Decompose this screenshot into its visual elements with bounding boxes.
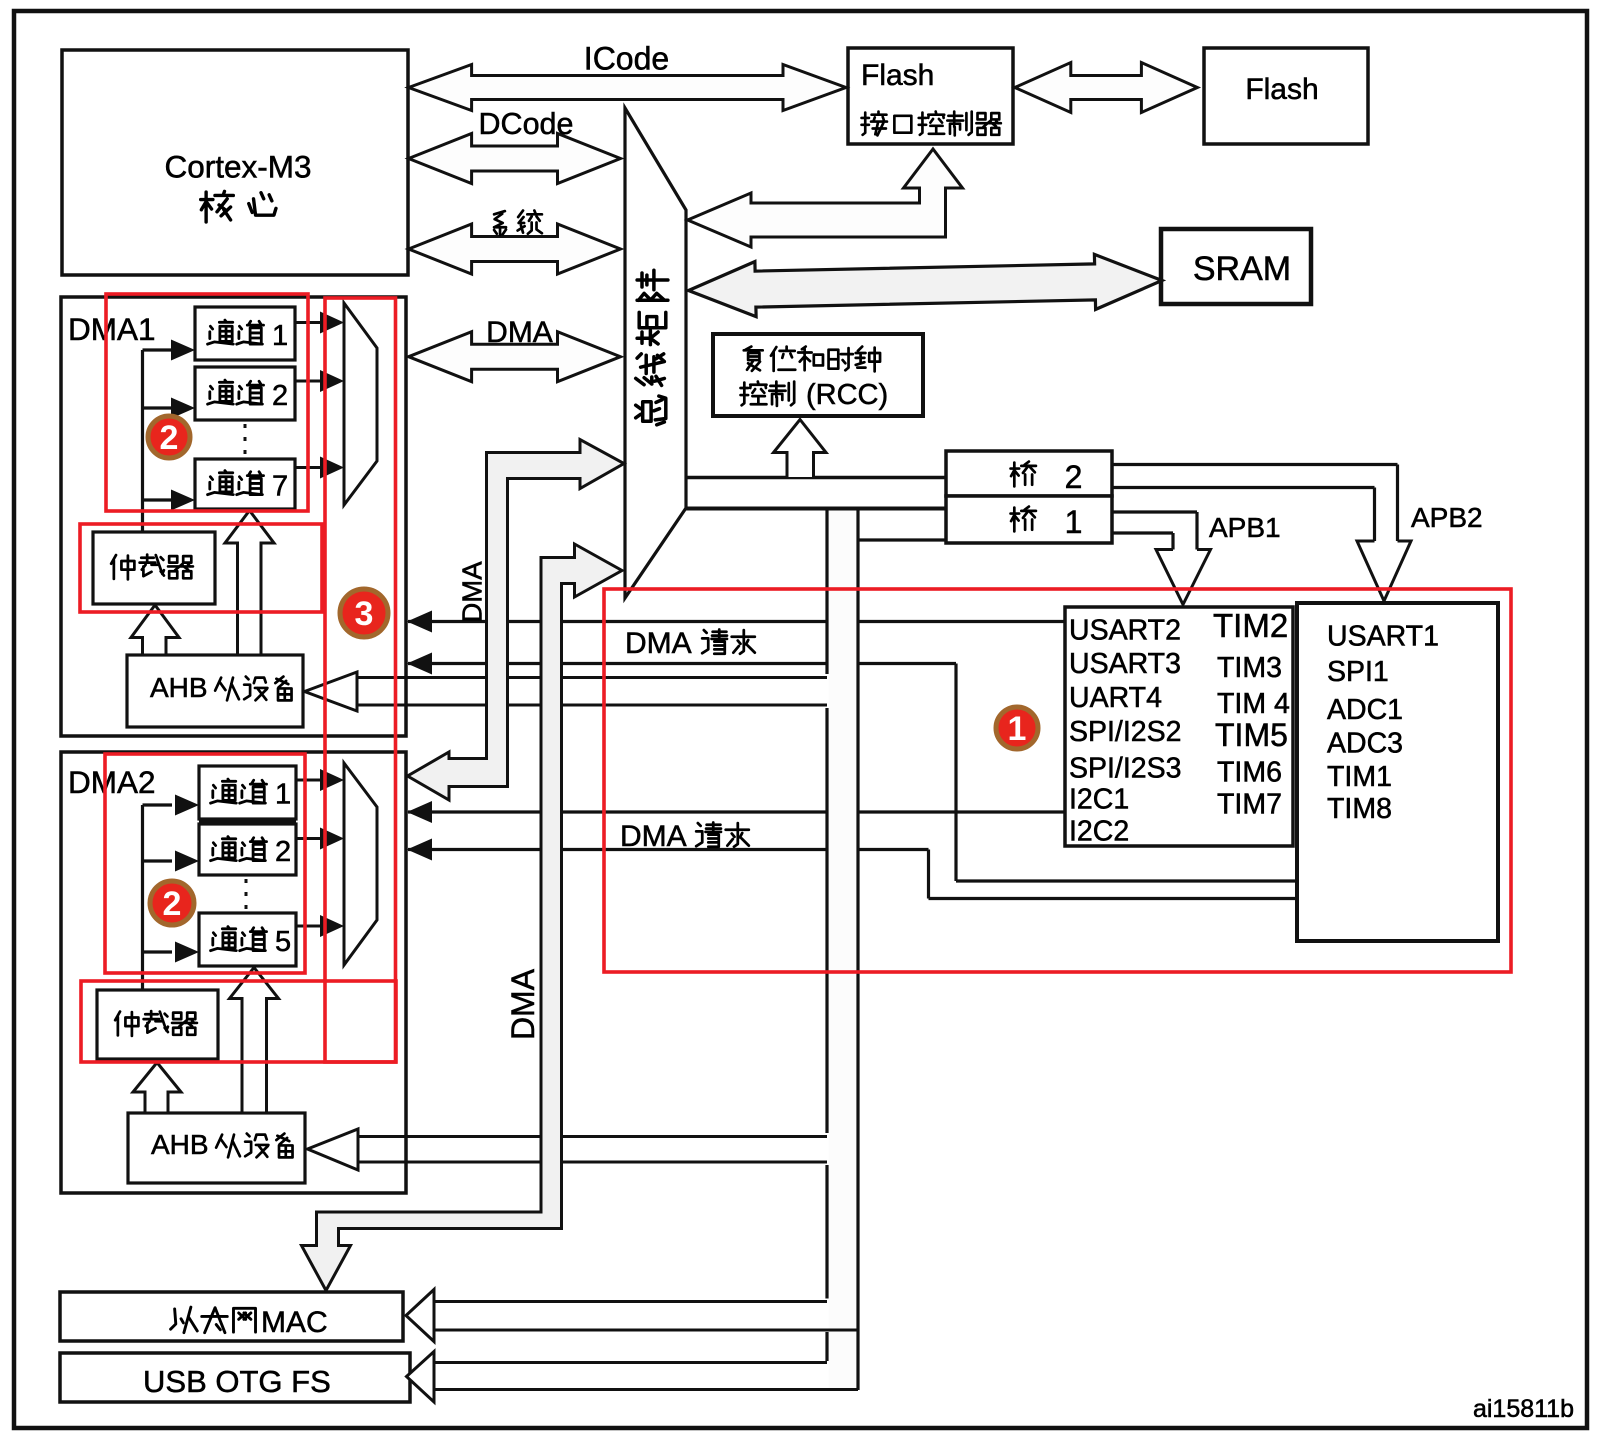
- arrow flash interface to flash: [1015, 63, 1198, 113]
- label DMA vertical lower: [505, 968, 541, 1040]
- bus matrix shape: [625, 108, 686, 598]
- svg-text:DMA: DMA: [620, 820, 687, 853]
- wire AHB slave DMA1 access shaft: [357, 676, 827, 679]
- red badge 2 DMA1: [148, 416, 190, 458]
- svg-text:5: 5: [275, 926, 291, 958]
- box DMA2 channel 2: [199, 824, 296, 875]
- svg-text:Flash: Flash: [1245, 73, 1318, 106]
- svg-text:APB2: APB2: [1411, 502, 1483, 533]
- svg-text:TIM8: TIM8: [1327, 793, 1392, 825]
- label bridge 2 cjk: [1011, 462, 1036, 487]
- label bus matrix cjk vertical: [637, 270, 668, 300]
- wire bridge1 lower edge: [858, 538, 946, 541]
- thick divider DMA2 ch1 ch2: [199, 819, 296, 824]
- wire DMA request line to DMA1 upper: [408, 620, 1065, 623]
- svg-text:SPI1: SPI1: [1327, 656, 1389, 688]
- box DMA2 channel 1: [199, 766, 296, 819]
- svg-text:ai15811b: ai15811b: [1473, 1395, 1574, 1423]
- box DMA2 channel 5: [199, 913, 296, 966]
- arrow bus matrix to flash interface: [688, 149, 963, 247]
- box DMA2 AHB slave: [128, 1113, 305, 1183]
- wire DMA2 channel1 to funnel: [297, 779, 321, 782]
- funnel DMA2 output mux: [344, 763, 377, 965]
- svg-text:TIM7: TIM7: [1217, 789, 1282, 821]
- red box DMA2 channels: [105, 754, 305, 973]
- wire DMA2 channel2 to funnel: [297, 837, 321, 840]
- box DMA2 arbiter: [97, 990, 218, 1059]
- funnel DMA1 output mux: [344, 303, 377, 505]
- box DMA1 channel 1: [195, 307, 295, 360]
- box APB1 peripheral group: [1065, 607, 1293, 846]
- wire bridge2 to APB2 upper: [1112, 463, 1398, 466]
- svg-text:2: 2: [160, 419, 179, 457]
- wire DMA request line to DMA2 upper: [408, 810, 1065, 813]
- label RCC line2 cjk: [741, 382, 767, 406]
- label arbiter1 cjk: [111, 555, 134, 579]
- wire branch to DMA2 channel 2: [143, 859, 173, 862]
- label system bus cjk: [494, 211, 506, 235]
- arrow into AHB slave DMA2: [308, 1129, 359, 1170]
- label channel1 cjk: [208, 320, 234, 344]
- svg-text:TIM 4: TIM 4: [1217, 688, 1290, 720]
- label channel7 cjk: [208, 471, 234, 495]
- wire DMA2 channel5 to funnel: [297, 925, 321, 928]
- box Flash: [1204, 48, 1368, 144]
- arrow DCode bus: [409, 134, 621, 184]
- gray band AHB peripheral bus fill: [829, 510, 857, 1388]
- svg-text:2: 2: [275, 836, 291, 868]
- arrow AHB slave to arbiter DMA2: [133, 1063, 181, 1114]
- svg-text:(RCC): (RCC): [806, 379, 888, 411]
- svg-text:Flash: Flash: [861, 59, 934, 92]
- wire APB2 peripherals request to DMA2: [956, 879, 1297, 882]
- svg-text:1: 1: [272, 320, 288, 352]
- svg-text:SPI/I2S3: SPI/I2S3: [1069, 753, 1181, 785]
- wire bridge1 to APB1 lower: [1112, 531, 1173, 534]
- svg-text:3: 3: [355, 595, 374, 633]
- dashed link DMA1 channels: [244, 424, 247, 456]
- label arbiter2 cjk: [115, 1012, 138, 1036]
- svg-text:TIM5: TIM5: [1215, 717, 1288, 753]
- red badge 2 DMA2: [150, 881, 194, 925]
- gray path bus matrix to ethernet with arrows: [302, 544, 623, 1291]
- label core cjk: [201, 191, 234, 222]
- arrow APB2 into peripherals: [1357, 541, 1411, 601]
- arrow APB1 into peripherals: [1156, 550, 1211, 605]
- svg-text:ADC3: ADC3: [1327, 728, 1403, 760]
- svg-text:SPI/I2S2: SPI/I2S2: [1069, 716, 1181, 748]
- wire branch to DMA2 channel 1: [143, 803, 173, 806]
- red box DMA1 arbiter: [80, 524, 322, 612]
- svg-text:Cortex-M3: Cortex-M3: [164, 149, 311, 185]
- label channel2 cjk: [208, 380, 234, 404]
- svg-text:USART2: USART2: [1069, 615, 1181, 647]
- arrow bus matrix to SRAM: [689, 254, 1163, 316]
- arrow AHB slave to channel5 DMA2: [230, 968, 279, 1114]
- box Flash interface controller: [848, 48, 1013, 144]
- wire channel7 to funnel: [296, 466, 321, 469]
- label d2channel2 cjk: [211, 837, 237, 861]
- svg-text:USB OTG FS: USB OTG FS: [143, 1364, 331, 1399]
- wire branch to channel 1: [143, 348, 173, 351]
- wire bridge2 to APB2 lower: [1112, 486, 1375, 489]
- box bridge 2: [946, 451, 1112, 496]
- label RCC line1 cjk: [744, 347, 763, 371]
- svg-text:2: 2: [272, 380, 288, 412]
- svg-text:DMA2: DMA2: [68, 764, 156, 800]
- wire channel2 to funnel: [296, 380, 321, 383]
- wire bus matrix to AHB system bus: [686, 507, 946, 511]
- box DMA1 AHB slave: [127, 655, 303, 727]
- wire bridge1 to APB1 upper: [1112, 510, 1197, 513]
- wire DMA request line to DMA1 lower: [408, 662, 956, 665]
- wire DMA2 arbiter to channels spine: [141, 805, 144, 990]
- arrow into USB OTG FS: [407, 1352, 435, 1403]
- svg-text:DMA: DMA: [486, 316, 553, 349]
- wire branch to DMA2 channel 5: [143, 950, 173, 953]
- svg-text:TIM2: TIM2: [1213, 607, 1288, 644]
- box DMA1: [61, 297, 406, 736]
- svg-text:ICode: ICode: [584, 41, 669, 77]
- svg-text:DCode: DCode: [479, 107, 574, 141]
- arrow AHB slave to channel7 DMA1: [225, 511, 274, 656]
- wire ethernet access shaft: [434, 1300, 827, 1303]
- svg-text:AHB: AHB: [150, 672, 208, 703]
- box DMA2: [61, 752, 406, 1193]
- label DMA vertical upper: [457, 561, 488, 623]
- box RCC reset and clock control: [713, 334, 923, 416]
- label d2channel5 cjk: [211, 927, 237, 951]
- svg-text:1: 1: [1065, 504, 1083, 540]
- box Ethernet MAC: [60, 1292, 403, 1341]
- band left edge segments: [825, 510, 828, 674]
- svg-text:USART1: USART1: [1327, 621, 1439, 653]
- gray path bus matrix to DMA2 with arrows: [408, 440, 625, 801]
- box USB OTG FS: [60, 1353, 410, 1402]
- svg-text:2: 2: [1065, 459, 1083, 495]
- wire branch to channel 2: [143, 406, 173, 409]
- svg-text:7: 7: [272, 471, 288, 503]
- box SRAM: [1161, 229, 1311, 304]
- label d2channel1 cjk: [211, 779, 237, 803]
- svg-text:ADC1: ADC1: [1327, 694, 1403, 726]
- red box output stage tall: [325, 298, 396, 1062]
- wire vertical junction peripherals to requests: [954, 664, 957, 882]
- svg-text:SRAM: SRAM: [1193, 250, 1291, 288]
- svg-text:TIM3: TIM3: [1217, 652, 1282, 684]
- svg-text:1: 1: [1008, 710, 1027, 748]
- red badge 1: [996, 707, 1038, 749]
- wire USB access shaft: [434, 1361, 827, 1364]
- red box DMA1 channels: [106, 294, 308, 511]
- dashed link DMA2 channels: [245, 879, 248, 909]
- svg-text:TIM1: TIM1: [1327, 761, 1392, 793]
- svg-text:UART4: UART4: [1069, 682, 1162, 714]
- arrow system bus: [409, 224, 621, 274]
- wire channel1 to funnel: [296, 321, 321, 324]
- svg-text:I2C1: I2C1: [1069, 784, 1129, 816]
- box bridge 1: [946, 496, 1112, 543]
- box APB2 peripheral group: [1297, 603, 1498, 941]
- wire branch to channel 7: [143, 498, 173, 501]
- wire AHB slave DMA2 access shaft: [358, 1135, 827, 1138]
- svg-text:USART3: USART3: [1069, 648, 1181, 680]
- wire AHB system bus line over band: [686, 507, 946, 511]
- box DMA1 channel 7: [195, 459, 295, 509]
- wire DMA1 arbiter to channels spine: [141, 350, 144, 532]
- red box peripherals region: [604, 589, 1511, 972]
- svg-text:DMA1: DMA1: [68, 311, 156, 347]
- red box DMA2 arbiter: [81, 981, 396, 1062]
- arrow into ethernet MAC: [406, 1290, 434, 1342]
- wire bus matrix to bridge 2: [687, 476, 946, 479]
- label ethernet cjk: [171, 1307, 198, 1333]
- svg-text:DMA: DMA: [457, 561, 488, 623]
- svg-text:2: 2: [163, 885, 182, 923]
- arrow AHB slave to arbiter DMA1: [131, 605, 179, 655]
- red badge 3: [340, 589, 388, 637]
- svg-text:DMA: DMA: [625, 627, 692, 660]
- svg-text:1: 1: [275, 779, 291, 811]
- box DMA1 arbiter: [93, 532, 215, 604]
- arrow DMA bus DMA1: [409, 332, 621, 382]
- svg-text:TIM6: TIM6: [1217, 757, 1282, 789]
- label flash interface controller cjk: [862, 112, 887, 136]
- svg-text:MAC: MAC: [261, 1306, 328, 1339]
- arrow ICode bus: [409, 65, 846, 111]
- box Cortex-M3 core: [62, 50, 408, 275]
- arrow to RCC: [774, 420, 827, 478]
- box DMA1 channel 2: [195, 367, 295, 420]
- wire DMA request line to DMA2 lower: [408, 848, 929, 851]
- svg-text:I2C2: I2C2: [1069, 816, 1129, 848]
- label bridge 1 cjk: [1011, 507, 1036, 532]
- svg-text:AHB: AHB: [151, 1129, 209, 1160]
- svg-text:DMA: DMA: [505, 968, 541, 1040]
- band right edge: [856, 509, 859, 1391]
- svg-text:APB1: APB1: [1209, 512, 1281, 543]
- arrow into AHB slave DMA1: [305, 672, 358, 711]
